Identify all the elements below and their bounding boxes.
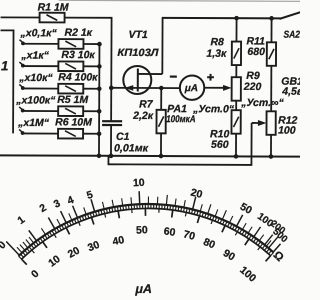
- label Ust0: [192, 103, 235, 115]
- wire: [235, 101, 237, 111]
- wire: [83, 65, 99, 67]
- label R12: [278, 115, 297, 127]
- wire: [1, 29, 15, 31]
- label R7 value: [132, 110, 154, 122]
- wire: [0, 155, 300, 156]
- svg-text:30: 30: [86, 239, 101, 254]
- svg-text:R2 1к: R2 1к: [64, 27, 92, 39]
- uA number 50: [136, 224, 148, 237]
- label R9: [246, 70, 260, 82]
- uA major ticks: [22, 208, 271, 266]
- wire: [250, 123, 252, 165]
- svg-text:100: 100: [237, 264, 258, 285]
- label GB1 value: [281, 86, 304, 98]
- wire: [161, 18, 163, 74]
- label VT1: [128, 29, 147, 41]
- switch SA2: [280, 12, 301, 19]
- svg-text:КП103Л: КП103Л: [117, 47, 159, 59]
- resistor R7: [156, 110, 165, 134]
- wire: [65, 17, 113, 19]
- svg-text:4,5в: 4,5в: [281, 86, 300, 98]
- svg-text:1: 1: [1, 58, 9, 73]
- wire: [22, 110, 58, 112]
- label C1 value: [114, 142, 149, 154]
- wire: [235, 134, 237, 157]
- label R7: [139, 98, 154, 110]
- wire: [270, 66, 272, 112]
- wire: [22, 65, 58, 67]
- node: [97, 64, 102, 69]
- minus sign: [170, 75, 177, 77]
- resistor R8: [232, 42, 241, 66]
- switch contact: [19, 129, 24, 135]
- switch SA1: [12, 30, 14, 134]
- svg-text:40: 40: [112, 234, 126, 248]
- resistor R9: [232, 77, 241, 101]
- resistor R10: [231, 110, 240, 134]
- svg-text:R6 10М: R6 10М: [55, 116, 92, 128]
- wire: [110, 88, 112, 120]
- svg-text:0: 0: [0, 239, 9, 252]
- wire: [110, 17, 112, 88]
- uA number 40: [111, 234, 125, 248]
- svg-text:„х0,1к“: „х0,1к“: [19, 27, 57, 39]
- svg-text:R3 10к: R3 10к: [61, 49, 95, 61]
- switch contact: [19, 62, 24, 68]
- svg-text:20: 20: [189, 186, 203, 200]
- svg-text:R8: R8: [210, 36, 224, 48]
- label PA1 value: [166, 114, 196, 125]
- wire: [107, 156, 109, 165]
- uA number 60: [163, 225, 176, 239]
- svg-text:80: 80: [201, 236, 217, 252]
- label VT1 type: [117, 47, 159, 59]
- resistor R11: [267, 42, 276, 66]
- label R4: [58, 71, 98, 83]
- svg-text:10: 10: [46, 253, 63, 270]
- label range „х100к“: [15, 94, 56, 106]
- svg-text:5: 5: [85, 189, 94, 202]
- kOhm number 200: [268, 218, 287, 237]
- svg-text:R1 1М: R1 1М: [38, 2, 69, 14]
- label R11: [246, 35, 265, 47]
- kOhm number 1: [15, 214, 27, 227]
- uA number 90: [221, 247, 237, 263]
- wire: [235, 18, 237, 42]
- switch contact: [19, 84, 24, 90]
- dial band outer arc: [19, 203, 274, 257]
- resistor R6: [58, 129, 83, 139]
- wire: [162, 17, 281, 20]
- svg-text:100мкА: 100мкА: [166, 114, 196, 125]
- dial band inner arc: [22, 208, 271, 260]
- plus sign: [207, 74, 214, 81]
- label SA1: [1, 58, 9, 73]
- label R8 value: [206, 48, 227, 60]
- svg-text:560: 560: [211, 139, 229, 151]
- label R3: [61, 49, 95, 61]
- node: [97, 42, 102, 47]
- label SA2: [283, 30, 300, 41]
- node: [234, 16, 239, 21]
- label C1: [116, 131, 130, 143]
- svg-text:μА: μА: [134, 282, 152, 296]
- svg-text:220: 220: [243, 81, 262, 93]
- uA number 10: [46, 253, 63, 270]
- meter PA1: [180, 75, 205, 100]
- svg-text:„х10к“: „х10к“: [18, 72, 53, 84]
- kOhm ticks: [6, 191, 281, 257]
- resistor R1: [40, 13, 65, 23]
- wire: [111, 87, 180, 89]
- wire: [160, 88, 162, 110]
- label R12 value: [278, 125, 296, 137]
- kOhm number 500: [270, 226, 289, 245]
- label R5: [57, 94, 88, 106]
- label R1: [38, 2, 69, 14]
- svg-text:50: 50: [238, 201, 254, 217]
- svg-text:1,3к: 1,3к: [206, 48, 227, 60]
- node: [109, 154, 114, 159]
- uA number 70: [182, 228, 197, 243]
- wiper arrow R12: [252, 120, 267, 126]
- wire: [108, 163, 252, 166]
- uA number 20: [66, 244, 82, 260]
- svg-text:70: 70: [182, 228, 197, 243]
- node: [97, 86, 102, 91]
- svg-text:2,2к: 2,2к: [132, 110, 154, 122]
- svg-text:„х1к“: „х1к“: [20, 50, 49, 62]
- label GB1: [281, 76, 303, 88]
- uA number 30: [86, 239, 101, 254]
- svg-text:„Уст.∞“: „Уст.∞“: [240, 97, 284, 109]
- switch contact: [19, 107, 24, 113]
- svg-text:1: 1: [15, 214, 27, 227]
- label range „х1к“: [20, 50, 49, 62]
- wire: [110, 126, 112, 156]
- label PA1: [167, 103, 187, 115]
- svg-text:10: 10: [133, 177, 145, 190]
- kOhm number 20: [189, 186, 203, 201]
- kOhm number 3: [52, 197, 63, 210]
- switch contact: [19, 40, 24, 46]
- label R6: [55, 116, 92, 128]
- label R11 value: [247, 46, 265, 58]
- svg-text:С1: С1: [116, 131, 130, 143]
- svg-text:100: 100: [278, 125, 296, 137]
- svg-text:60: 60: [163, 225, 176, 238]
- Ohm symbol: [271, 249, 286, 264]
- wire: [1, 16, 40, 18]
- svg-text:0,01мк: 0,01мк: [114, 142, 149, 154]
- uA number 100: [237, 264, 258, 285]
- node: [269, 16, 274, 21]
- wire: [22, 43, 58, 45]
- svg-text:20: 20: [66, 245, 82, 261]
- svg-text:VT1: VT1: [128, 29, 147, 41]
- node: [159, 86, 164, 91]
- kOhm number 100: [255, 211, 275, 230]
- uA unit label: [134, 282, 152, 296]
- wire: [204, 87, 223, 89]
- resistor R3: [58, 61, 83, 71]
- label R2: [64, 27, 92, 39]
- svg-text:μА: μА: [184, 83, 198, 94]
- wire: [83, 43, 99, 45]
- dial comb ticks: [19, 203, 274, 260]
- label range „х10к“: [18, 72, 53, 84]
- label range „х1М“: [17, 117, 50, 129]
- svg-text:50: 50: [136, 224, 148, 236]
- label R10: [210, 128, 229, 140]
- svg-text:2: 2: [38, 202, 49, 215]
- resistor R5: [58, 106, 83, 116]
- kOhm number 4: [66, 194, 76, 207]
- svg-text:R4 100к: R4 100к: [58, 71, 98, 83]
- node: [109, 86, 114, 91]
- kOhm number 2: [37, 202, 48, 215]
- svg-text:„х100к“: „х100к“: [15, 94, 56, 106]
- kOhm cut number 0: [0, 239, 9, 252]
- label R8: [210, 36, 224, 48]
- node: [97, 153, 102, 158]
- capacitor C1: [102, 121, 122, 125]
- kOhm number 5: [85, 189, 94, 202]
- node: [269, 154, 274, 159]
- uA number 80: [201, 236, 217, 252]
- node: [97, 131, 102, 136]
- wire: [22, 132, 58, 134]
- uA medium ticks: [32, 208, 260, 254]
- wire: [270, 18, 272, 43]
- svg-text:R5 1М: R5 1М: [57, 94, 88, 106]
- node: [97, 109, 102, 114]
- label R10 value: [211, 139, 229, 151]
- node: [234, 154, 239, 159]
- svg-text:0: 0: [29, 268, 42, 281]
- wire: [235, 65, 237, 78]
- decorative: [59, 0, 301, 1]
- wire: [270, 135, 272, 157]
- label Ust-inf: [240, 97, 284, 109]
- wire: [83, 133, 99, 135]
- svg-text:680: 680: [247, 46, 265, 58]
- svg-text:R7: R7: [139, 98, 154, 110]
- kOhm number 50: [238, 201, 254, 217]
- kOhm number 10: [133, 177, 145, 190]
- wire: [83, 88, 99, 90]
- resistor R4: [58, 84, 83, 94]
- label R9 value: [243, 81, 262, 93]
- wire: [160, 133, 162, 156]
- svg-text:„Уст.0“: „Уст.0“: [192, 103, 235, 115]
- transistor VT1: [123, 66, 162, 94]
- resistor R12: [266, 111, 275, 135]
- svg-text:4: 4: [66, 194, 76, 207]
- svg-text:„х1М“: „х1М“: [17, 117, 50, 129]
- wire: [98, 44, 100, 156]
- wire: [83, 110, 99, 112]
- wiper arrow R9: [223, 85, 232, 91]
- svg-text:SA2: SA2: [283, 30, 300, 41]
- wire: [22, 87, 58, 89]
- uA number 0: [29, 268, 42, 281]
- node: [159, 154, 164, 159]
- svg-text:3: 3: [52, 197, 63, 210]
- svg-text:90: 90: [221, 247, 237, 263]
- label range „х0,1к“: [19, 27, 57, 39]
- resistor R2: [58, 39, 83, 49]
